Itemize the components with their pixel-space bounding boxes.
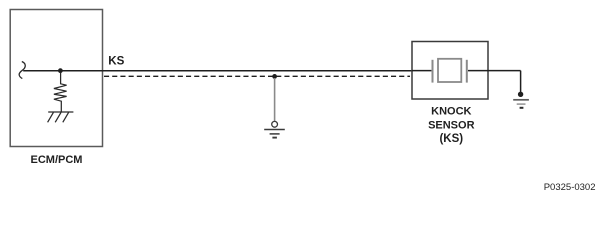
knock sensor box: [412, 42, 488, 100]
svg-text:KNOCK: KNOCK: [431, 106, 471, 118]
earth ground (sensor): [513, 100, 529, 108]
chassis ground (ECM): [48, 112, 74, 122]
node junction dot: [58, 68, 63, 73]
shield junction dot: [272, 74, 277, 79]
wire KS signal: [23, 70, 412, 72]
shield dashed wire: [104, 75, 410, 77]
earth ground (shield): [264, 130, 285, 138]
svg-text:SENSOR: SENSOR: [428, 120, 475, 132]
wire sensor left lead: [412, 70, 431, 72]
ECM/PCM module box: [10, 10, 102, 147]
sensor ground dot: [518, 92, 523, 97]
resistor (ECM internal pull-up): [54, 73, 67, 113]
wire sensor right lead: [468, 70, 521, 72]
shield drain wire: [274, 78, 276, 121]
svg-text:P0325-0302: P0325-0302: [544, 182, 596, 193]
wire sensor ground drop: [520, 71, 522, 93]
svg-text:(KS): (KS): [439, 133, 463, 145]
svg-text:KS: KS: [108, 55, 124, 68]
shield ground terminal circle: [272, 121, 278, 127]
svg-text:ECM/PCM: ECM/PCM: [31, 154, 83, 166]
wire break symbol: [19, 62, 25, 79]
knock sensor piezo element: [433, 59, 467, 83]
